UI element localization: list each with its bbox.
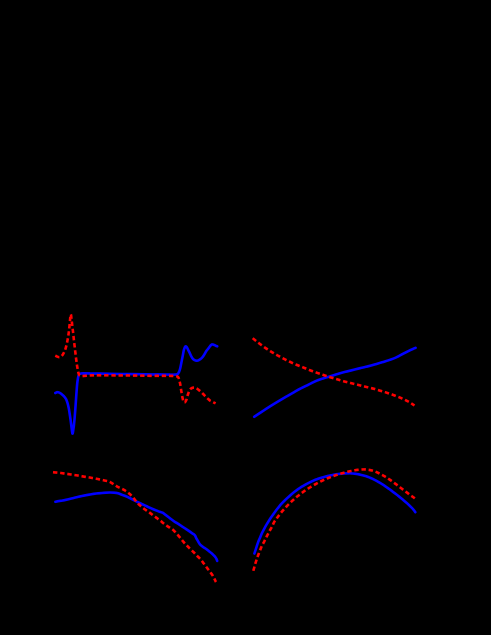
subplot bottom-right: blue solid arch curve [254,473,415,553]
subplot top-right: red dashed falling curve [253,338,415,405]
subplot top-left: red dashed curve (resonance with peak) [55,314,215,403]
subplot bottom-left: red dashed falling curve [53,472,216,582]
subplot bottom-right: red dashed arch curve [253,469,415,570]
subplot top-left: blue solid curve (resonance with dip) [55,344,217,433]
subplot bottom-left: blue solid stepped falling curve [55,493,217,561]
subplot top-right: blue solid rising curve [254,348,415,417]
